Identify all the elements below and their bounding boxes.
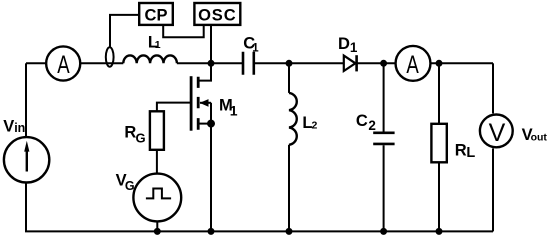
wire OSC probe down to drain node	[210, 25, 212, 63]
wire node to L2	[288, 63, 290, 93]
box CP	[139, 3, 173, 25]
node C2 bottom junction	[380, 228, 387, 235]
wire L2 to bottom rail	[288, 145, 290, 232]
bottom rail wire	[25, 230, 493, 232]
inductor L2	[289, 93, 297, 145]
ammeter A input	[46, 46, 80, 80]
MOSFET body arrow	[200, 99, 209, 107]
resistor RG	[150, 111, 164, 150]
wire CP to current probe loop	[110, 15, 139, 48]
wire C1 to D1	[254, 62, 344, 64]
diode D1	[344, 56, 356, 71]
node M1 bottom junction	[208, 228, 215, 235]
node RL top junction	[436, 60, 443, 67]
capacitor C2	[373, 133, 394, 144]
MOSFET M1	[191, 76, 198, 131]
node VG bottom junction	[154, 228, 161, 235]
box OSC	[194, 3, 240, 25]
wire RG to VG source	[156, 150, 158, 174]
wire left branch Vin top	[25, 63, 27, 136]
wire top left from Vin to L1	[26, 62, 123, 64]
source Vin	[4, 137, 49, 182]
wire MOSFET source down to bottom rail	[210, 103, 212, 232]
inductor L1	[123, 55, 177, 63]
wire voltmeter to bottom rail	[492, 149, 494, 232]
node MOSFET source junction	[207, 120, 215, 128]
node drain junction	[208, 60, 215, 67]
wire C2 to bottom rail	[383, 145, 385, 231]
node RL bottom junction	[436, 228, 443, 235]
capacitor C1	[243, 52, 254, 75]
source VG	[133, 174, 181, 222]
wire left branch Vin bottom	[25, 184, 27, 232]
wire node to RL	[438, 63, 440, 124]
wire right corner down to voltmeter	[492, 63, 494, 113]
svg-text:A: A	[57, 51, 70, 79]
wire L1 to C1	[177, 62, 243, 64]
ammeter A output	[396, 46, 431, 81]
node L2 bottom junction	[286, 228, 293, 235]
wire MOSFET source line	[198, 123, 211, 125]
node C2 top junction	[380, 60, 387, 67]
svg-text:A: A	[406, 51, 419, 79]
current probe loop	[106, 47, 114, 66]
wire CP to OSC	[163, 25, 204, 37]
wire gate lead from RG to gate	[157, 103, 191, 112]
voltmeter Vout	[480, 114, 513, 147]
wire node to C2	[383, 63, 385, 131]
svg-text:OSC: OSC	[198, 7, 236, 25]
svg-text:CP: CP	[145, 7, 168, 25]
svg-text:V: V	[489, 119, 506, 147]
wire MOSFET body line	[200, 102, 211, 104]
wire D1 to right corner	[356, 62, 493, 64]
node L2 top junction	[286, 60, 293, 67]
wire drain node to MOSFET drain	[198, 63, 211, 80]
wire VG source to bottom rail	[156, 221, 158, 231]
wire RL to bottom rail	[438, 162, 440, 231]
svg-text:RL: RL	[455, 142, 476, 161]
resistor RL	[431, 124, 446, 163]
